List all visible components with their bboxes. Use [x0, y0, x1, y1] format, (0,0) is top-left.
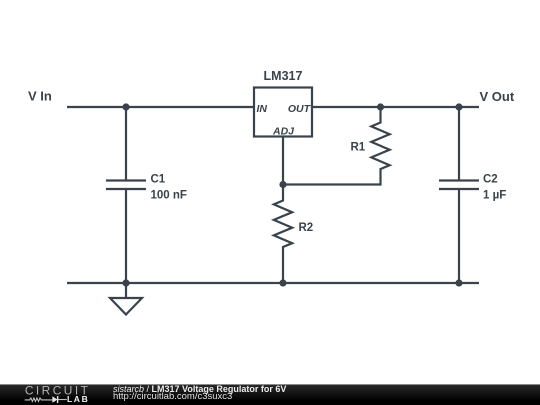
svg-text:ADJ: ADJ	[272, 126, 295, 138]
svg-text:LAB: LAB	[67, 394, 89, 404]
svg-text:100 nF: 100 nF	[151, 190, 187, 202]
svg-text:R2: R2	[299, 222, 314, 234]
svg-text:C2: C2	[483, 174, 498, 186]
svg-text:R1: R1	[351, 142, 366, 154]
svg-text:V Out: V Out	[480, 89, 515, 104]
svg-text:C1: C1	[151, 174, 166, 186]
svg-text:V In: V In	[28, 89, 52, 104]
svg-text:LM317: LM317	[264, 69, 303, 83]
svg-text:OUT: OUT	[288, 103, 312, 115]
svg-text:IN: IN	[257, 103, 268, 115]
svg-text:1 µF: 1 µF	[483, 190, 506, 202]
